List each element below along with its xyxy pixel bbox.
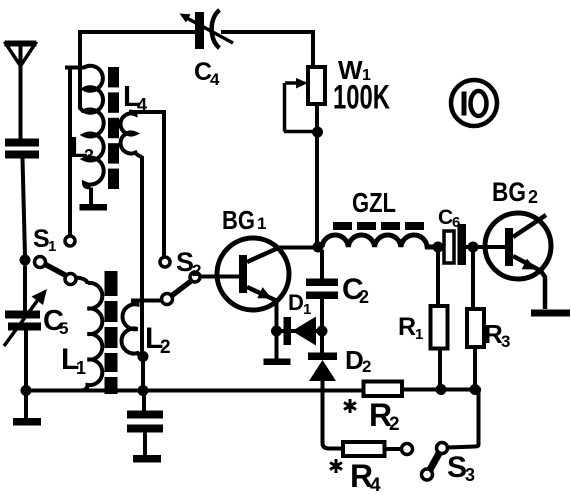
variable capacitor C4 xyxy=(180,10,234,49)
variable capacitor C5 xyxy=(4,266,47,387)
node BG1 emitter junction xyxy=(271,326,282,337)
svg-text:5: 5 xyxy=(59,319,68,338)
node W1/GZL/C2/collector xyxy=(313,242,324,253)
svg-text:3: 3 xyxy=(84,146,94,166)
diode D2 xyxy=(308,331,343,449)
svg-text:BG: BG xyxy=(492,177,526,207)
svg-text:R: R xyxy=(398,313,416,341)
label GZL xyxy=(352,187,396,218)
wire C4 to W1 corner xyxy=(221,32,313,67)
resistor R3 xyxy=(467,252,484,385)
node D1/C2/D2 junction xyxy=(317,326,328,337)
figure number badge 10 xyxy=(451,80,497,126)
label D1 xyxy=(288,290,311,318)
svg-text:2: 2 xyxy=(362,357,371,376)
label S1 xyxy=(33,225,56,255)
resistor R4 xyxy=(343,442,413,456)
asterisk (R2) xyxy=(344,399,356,413)
svg-text:1: 1 xyxy=(76,358,86,378)
label BG2 xyxy=(492,177,538,207)
svg-text:BG: BG xyxy=(222,205,255,235)
node L2 bottom junction xyxy=(138,351,149,362)
wire corner down to L3 tap xyxy=(80,33,84,112)
wire S3 riser xyxy=(448,390,479,448)
potentiometer W1 xyxy=(284,67,325,247)
svg-text:100K: 100K xyxy=(333,79,390,117)
label R3 xyxy=(484,319,510,351)
node C6/BG2-base/R3 xyxy=(468,242,479,253)
switch S3 xyxy=(422,443,448,481)
svg-text:GZL: GZL xyxy=(352,187,396,218)
capacitor (bypass, bottom middle) xyxy=(127,391,163,456)
svg-text:S: S xyxy=(447,451,467,484)
svg-text:6: 6 xyxy=(452,214,460,231)
svg-text:2: 2 xyxy=(528,187,538,207)
wire S1 top contact up to L3 xyxy=(68,68,72,236)
label L3 xyxy=(70,132,94,166)
svg-text:4: 4 xyxy=(370,475,381,495)
svg-text:D: D xyxy=(345,345,364,375)
wire top-left horizontal to C4 xyxy=(78,30,195,34)
wire L4 top to S2 top contact xyxy=(129,112,164,257)
label BG1 xyxy=(222,205,266,235)
switch S2 xyxy=(160,257,200,305)
core (L3/L4 transformer) xyxy=(108,67,119,189)
svg-text:1: 1 xyxy=(303,301,311,318)
label S3 xyxy=(447,451,475,485)
wire L2 node down to rail node xyxy=(141,357,145,390)
svg-text:C: C xyxy=(438,206,453,229)
svg-text:2: 2 xyxy=(359,287,369,307)
node R3/S3 junction xyxy=(470,384,481,395)
node S1/antenna junction xyxy=(20,255,31,266)
label R1 xyxy=(398,313,423,343)
asterisk (R4) xyxy=(330,459,342,473)
transistor BG2 xyxy=(485,213,551,309)
svg-text:2: 2 xyxy=(160,337,171,358)
label R2 xyxy=(369,397,400,435)
label R4 xyxy=(350,458,381,495)
label S2 xyxy=(176,247,201,280)
ground (bottom left) xyxy=(13,391,41,426)
coil L2 xyxy=(122,301,144,358)
wire S2 lower contact left to L2 top xyxy=(131,299,162,303)
label C6 xyxy=(438,206,460,231)
node W1 wiper tie xyxy=(312,127,323,138)
svg-text:1: 1 xyxy=(415,326,423,343)
wire antenna cap to S1 node xyxy=(23,159,26,257)
capacitor (antenna series) xyxy=(5,139,39,159)
label C2 xyxy=(342,273,369,307)
diode D1 xyxy=(277,317,322,346)
svg-text:1: 1 xyxy=(48,238,56,255)
ground (bottom middle) xyxy=(133,455,161,463)
resistor R1 xyxy=(431,252,448,385)
svg-text:3: 3 xyxy=(465,465,475,485)
resistor R2 xyxy=(364,382,482,397)
node rail/bypass-cap junction xyxy=(138,385,149,396)
coil L1 xyxy=(81,283,102,391)
node bottom-left rail corner xyxy=(21,385,32,396)
capacitor C2 xyxy=(306,250,338,330)
ground (under BG1 emitter) xyxy=(264,331,291,365)
label L1 xyxy=(61,343,86,378)
wire S1 lower contact to L1 top xyxy=(76,278,88,285)
label L2 xyxy=(145,322,171,358)
wire bottom rail xyxy=(26,389,364,393)
wire node to BG2 base xyxy=(475,245,505,249)
ground (under BG2 emitter) xyxy=(531,310,570,317)
svg-text:4: 4 xyxy=(210,70,220,89)
wire BG1 collector to node xyxy=(277,246,317,250)
svg-text:1: 1 xyxy=(257,214,266,233)
wire L4 bottom down to L2 bottom node xyxy=(140,156,144,353)
label 100K xyxy=(333,79,390,117)
switch S1 xyxy=(35,236,77,285)
label W1 xyxy=(338,55,371,85)
inductor GZL xyxy=(322,222,434,247)
node R2/R1 junction xyxy=(436,384,447,395)
label L4 xyxy=(123,81,147,115)
label C4 xyxy=(194,58,220,89)
coil L3 xyxy=(65,66,104,188)
label D2 xyxy=(345,345,371,376)
svg-text:2: 2 xyxy=(389,414,400,435)
ground (under L3) xyxy=(80,188,108,211)
label C5 xyxy=(43,305,68,338)
svg-text:3: 3 xyxy=(501,332,510,351)
antenna xyxy=(5,44,37,139)
capacitor C6 xyxy=(444,224,470,265)
svg-text:D: D xyxy=(288,290,304,315)
node GZL/C6/R1 xyxy=(433,242,444,253)
transistor BG1 xyxy=(200,238,289,330)
coil L4 xyxy=(121,112,142,158)
core (L1/L2 transformer) xyxy=(105,271,118,394)
